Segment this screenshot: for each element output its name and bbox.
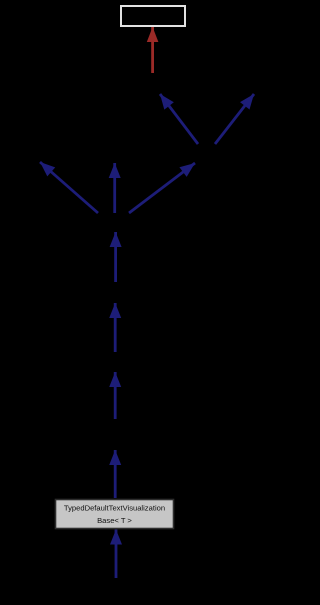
wire: blue arrow E6 vertical — [114, 232, 117, 282]
wire: blue arrow E3 up-left to row3 left box — [40, 162, 98, 213]
wire: blue arrow E9 vertical to row7 box — [114, 450, 117, 498]
wire: red inheritance arrow to top box — [151, 27, 154, 73]
wire: blue arrow E10 from derived class below into grey box — [115, 530, 118, 579]
wire: blue arrow E1 up-left to row2 left box — [160, 94, 198, 144]
svg-text:Base< T >: Base< T > — [97, 516, 132, 525]
node: TypedDefaultTextVisualizationBase< T > (current class, grey) — [56, 500, 174, 529]
svg-text:TypedDefaultTextVisualization: TypedDefaultTextVisualization — [64, 504, 165, 513]
wire: blue arrow E2 up-right to row2 right box — [215, 94, 254, 144]
wire: blue arrow E5 up-right to row3 right box — [129, 163, 195, 213]
wire: blue arrow E4 vertical to row3 middle box — [113, 163, 116, 213]
wire: blue arrow E8 vertical — [114, 372, 117, 419]
wire: blue arrow E7 vertical — [114, 303, 117, 352]
node: top base class box (empty, light border) — [121, 6, 185, 26]
